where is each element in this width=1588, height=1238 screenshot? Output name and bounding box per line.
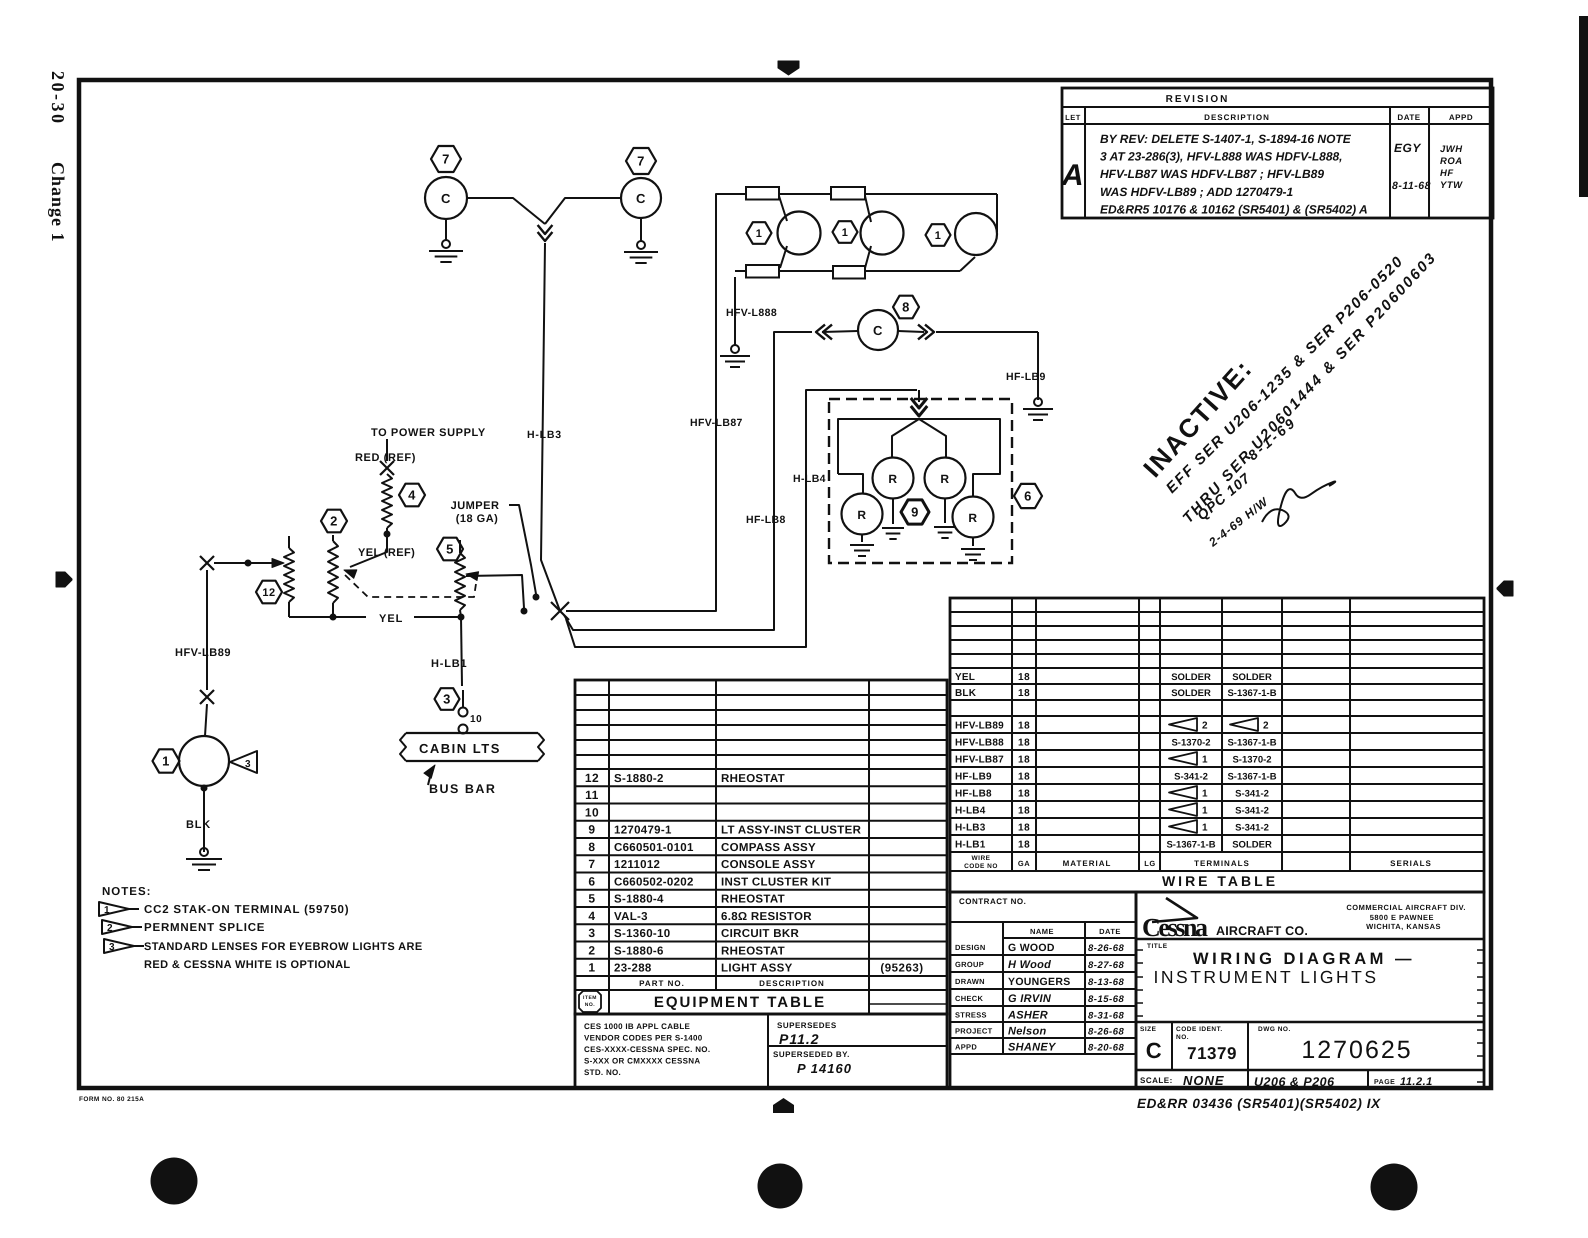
svg-text:G IRVIN: G IRVIN <box>1008 993 1052 1005</box>
svg-text:11.2.1: 11.2.1 <box>1400 1076 1433 1088</box>
svg-text:WIRING DIAGRAM —: WIRING DIAGRAM — <box>1193 950 1415 968</box>
svg-text:S-1367-1-B: S-1367-1-B <box>1166 840 1215 851</box>
svg-text:STD. NO.: STD. NO. <box>584 1068 621 1077</box>
svg-text:S-341-2: S-341-2 <box>1235 789 1269 800</box>
svg-text:RHEOSTAT: RHEOSTAT <box>721 945 785 957</box>
svg-text:C: C <box>441 191 451 206</box>
svg-text:TERMINALS: TERMINALS <box>1194 859 1250 868</box>
svg-text:NO.: NO. <box>1176 1034 1189 1041</box>
svg-text:1: 1 <box>1202 755 1208 766</box>
svg-text:PAGE: PAGE <box>1374 1079 1395 1086</box>
svg-text:JWH: JWH <box>1440 144 1463 155</box>
svg-text:C660501-0101: C660501-0101 <box>614 842 694 854</box>
svg-text:3 AT 23-286(3), HFV-L888 WAS H: 3 AT 23-286(3), HFV-L888 WAS HDFV-L888, <box>1100 150 1343 164</box>
svg-text:1: 1 <box>842 227 849 239</box>
svg-text:1270479-1: 1270479-1 <box>614 825 672 837</box>
svg-text:S-1367-1-B: S-1367-1-B <box>1227 772 1276 783</box>
svg-text:CHECK: CHECK <box>955 994 983 1003</box>
svg-text:18: 18 <box>1018 721 1030 732</box>
svg-text:C: C <box>1146 1038 1162 1063</box>
svg-text:G WOOD: G WOOD <box>1008 942 1055 954</box>
svg-text:YEL (REF): YEL (REF) <box>358 547 415 559</box>
svg-text:HF-LB9: HF-LB9 <box>955 772 992 783</box>
svg-text:Nelson: Nelson <box>1008 1026 1046 1038</box>
svg-text:8-26-68: 8-26-68 <box>1088 1027 1124 1038</box>
svg-text:PART NO.: PART NO. <box>639 979 685 988</box>
svg-text:20-30: 20-30 <box>48 71 68 126</box>
svg-text:1: 1 <box>588 961 595 975</box>
svg-text:HFV-LB88: HFV-LB88 <box>955 738 1004 749</box>
svg-text:8: 8 <box>902 300 910 315</box>
svg-text:R: R <box>888 472 897 486</box>
svg-text:SOLDER: SOLDER <box>1171 672 1211 683</box>
svg-text:ROA: ROA <box>1440 156 1463 167</box>
svg-text:6.8Ω RESISTOR: 6.8Ω RESISTOR <box>721 911 812 923</box>
svg-text:RHEOSTAT: RHEOSTAT <box>721 894 785 906</box>
svg-text:S-1367-1-B: S-1367-1-B <box>1227 738 1276 749</box>
svg-text:DRAWN: DRAWN <box>955 977 985 986</box>
svg-text:H Wood: H Wood <box>1008 959 1051 971</box>
svg-text:1: 1 <box>162 754 170 769</box>
svg-text:VENDOR CODES PER S-1400: VENDOR CODES PER S-1400 <box>584 1034 703 1043</box>
svg-text:12: 12 <box>262 587 275 599</box>
svg-text:DWG NO.: DWG NO. <box>1258 1026 1291 1033</box>
svg-text:MATERIAL: MATERIAL <box>1063 859 1112 868</box>
svg-text:8-31-68: 8-31-68 <box>1088 1011 1124 1022</box>
svg-text:NO.: NO. <box>585 1002 596 1008</box>
svg-text:EQUIPMENT TABLE: EQUIPMENT TABLE <box>654 994 826 1011</box>
svg-text:9: 9 <box>588 823 595 837</box>
svg-text:1: 1 <box>1202 823 1208 834</box>
svg-text:S-XXX OR CMXXXX CESSNA: S-XXX OR CMXXXX CESSNA <box>584 1057 700 1066</box>
svg-text:S-341-2: S-341-2 <box>1174 772 1208 783</box>
svg-text:ED&RR5 10176 & 10162 (SR5401): ED&RR5 10176 & 10162 (SR5401) & (SR5402)… <box>1100 202 1368 216</box>
svg-text:10: 10 <box>585 805 599 819</box>
svg-text:SERIALS: SERIALS <box>1390 859 1432 868</box>
svg-text:YTW: YTW <box>1440 180 1463 191</box>
svg-text:23-288: 23-288 <box>614 963 652 975</box>
svg-text:7: 7 <box>588 857 595 871</box>
svg-text:HFV-LB89: HFV-LB89 <box>175 647 231 659</box>
svg-text:18: 18 <box>1018 755 1030 766</box>
svg-text:COMMERCIAL AIRCRAFT DIV.: COMMERCIAL AIRCRAFT DIV. <box>1346 903 1466 912</box>
svg-text:ITEM: ITEM <box>583 995 597 1001</box>
svg-text:H-LB1: H-LB1 <box>955 840 986 851</box>
svg-text:FORM NO. 80 215A: FORM NO. 80 215A <box>79 1096 144 1103</box>
svg-text:5800 E PAWNEE: 5800 E PAWNEE <box>1370 913 1434 922</box>
svg-text:STRESS: STRESS <box>955 1011 987 1020</box>
svg-text:DESIGN: DESIGN <box>955 943 986 952</box>
svg-text:LT ASSY-INST CLUSTER: LT ASSY-INST CLUSTER <box>721 825 862 837</box>
svg-text:18: 18 <box>1018 840 1030 851</box>
svg-text:DESCRIPTION: DESCRIPTION <box>759 979 825 988</box>
svg-text:3: 3 <box>109 942 115 953</box>
svg-text:1: 1 <box>935 230 942 242</box>
svg-text:7: 7 <box>637 154 645 169</box>
svg-text:WIRE: WIRE <box>972 855 991 862</box>
svg-text:C660502-0202: C660502-0202 <box>614 876 694 888</box>
svg-text:CONSOLE ASSY: CONSOLE ASSY <box>721 859 816 871</box>
svg-text:18: 18 <box>1018 688 1030 699</box>
svg-text:5: 5 <box>446 542 454 557</box>
svg-text:NAME: NAME <box>1030 927 1054 936</box>
svg-text:3: 3 <box>443 692 451 707</box>
svg-text:SOLDER: SOLDER <box>1232 672 1272 683</box>
svg-text:8-27-68: 8-27-68 <box>1088 960 1124 971</box>
svg-text:STANDARD LENSES FOR EYEBROW LI: STANDARD LENSES FOR EYEBROW LIGHTS ARE <box>144 941 423 953</box>
svg-text:BY REV: DELETE S-1407-1, S-189: BY REV: DELETE S-1407-1, S-1894-16 NOTE <box>1100 132 1352 146</box>
svg-text:YEL: YEL <box>955 672 975 683</box>
svg-text:18: 18 <box>1018 672 1030 683</box>
svg-text:S-1880-6: S-1880-6 <box>614 945 664 957</box>
svg-text:7: 7 <box>442 152 450 167</box>
svg-text:2: 2 <box>1263 721 1269 732</box>
svg-text:S-1367-1-B: S-1367-1-B <box>1227 688 1276 699</box>
svg-text:S-1880-2: S-1880-2 <box>614 773 664 785</box>
svg-text:S-1370-2: S-1370-2 <box>1232 755 1271 766</box>
svg-text:COMPASS ASSY: COMPASS ASSY <box>721 842 816 854</box>
svg-text:AIRCRAFT CO.: AIRCRAFT CO. <box>1216 924 1308 938</box>
svg-text:1: 1 <box>1202 789 1208 800</box>
svg-text:10: 10 <box>470 714 482 725</box>
svg-text:8-15-68: 8-15-68 <box>1088 994 1124 1005</box>
svg-text:9: 9 <box>911 505 919 520</box>
svg-text:CC2 STAK-ON TERMINAL (59750): CC2 STAK-ON TERMINAL (59750) <box>144 904 349 916</box>
svg-text:HFV-LB87: HFV-LB87 <box>690 417 743 429</box>
svg-text:TO POWER SUPPLY: TO POWER SUPPLY <box>371 427 486 439</box>
svg-text:HF-LB9: HF-LB9 <box>1006 371 1046 383</box>
svg-text:18: 18 <box>1018 823 1030 834</box>
svg-text:8-13-68: 8-13-68 <box>1088 977 1124 988</box>
svg-text:HF-LB8: HF-LB8 <box>746 514 786 526</box>
svg-text:NOTES:: NOTES: <box>102 886 151 898</box>
svg-text:8-26-68: 8-26-68 <box>1088 943 1124 954</box>
svg-text:71379: 71379 <box>1187 1044 1237 1063</box>
svg-text:(18 GA): (18 GA) <box>456 513 499 525</box>
svg-text:BUS BAR: BUS BAR <box>429 782 496 796</box>
svg-text:2: 2 <box>588 943 595 957</box>
svg-text:4: 4 <box>408 488 416 503</box>
svg-text:1: 1 <box>756 228 763 240</box>
svg-text:CES 1000 IB APPL CABLE: CES 1000 IB APPL CABLE <box>584 1022 691 1031</box>
svg-text:A: A <box>1061 159 1084 192</box>
svg-text:RED & CESSNA WHITE IS OPTIONAL: RED & CESSNA WHITE IS OPTIONAL <box>144 959 351 971</box>
svg-text:DATE: DATE <box>1397 113 1420 122</box>
svg-text:SCALE:: SCALE: <box>1140 1076 1173 1085</box>
svg-text:EGY: EGY <box>1394 141 1421 155</box>
svg-text:HF-LB8: HF-LB8 <box>955 789 992 800</box>
svg-text:18: 18 <box>1018 789 1030 800</box>
svg-text:5: 5 <box>588 892 595 906</box>
svg-text:SUPERSEDES: SUPERSEDES <box>777 1021 837 1030</box>
svg-text:HFV-LB89: HFV-LB89 <box>955 721 1004 732</box>
svg-text:H-LB1: H-LB1 <box>431 658 467 670</box>
svg-text:CIRCUIT BKR: CIRCUIT BKR <box>721 928 799 940</box>
svg-text:CABIN LTS: CABIN LTS <box>419 741 501 756</box>
svg-text:BLK: BLK <box>955 688 977 699</box>
svg-text:2: 2 <box>330 514 338 529</box>
svg-text:H-LB4: H-LB4 <box>793 473 826 485</box>
svg-text:2: 2 <box>1202 721 1208 732</box>
svg-text:APPD: APPD <box>1449 113 1473 122</box>
svg-text:1270625: 1270625 <box>1301 1036 1412 1064</box>
svg-text:LIGHT ASSY: LIGHT ASSY <box>721 963 793 975</box>
svg-text:4: 4 <box>588 909 595 923</box>
svg-text:WAS HDFV-LB89 ; ADD 1270479-1: WAS HDFV-LB89 ; ADD 1270479-1 <box>1100 185 1293 199</box>
svg-text:(95263): (95263) <box>880 963 923 975</box>
svg-text:SOLDER: SOLDER <box>1232 840 1272 851</box>
svg-text:HF: HF <box>1440 168 1454 179</box>
svg-text:INST CLUSTER KIT: INST CLUSTER KIT <box>721 876 831 888</box>
svg-text:GROUP: GROUP <box>955 960 984 969</box>
svg-text:HFV-LB87 WAS HDFV-LB87 ; HFV: HFV-LB87 WAS HDFV-LB87 ; HFV-LB89 <box>1100 167 1324 181</box>
svg-text:18: 18 <box>1018 738 1030 749</box>
svg-text:R: R <box>940 472 949 486</box>
svg-text:S-1360-10: S-1360-10 <box>614 928 670 940</box>
svg-text:8: 8 <box>588 840 595 854</box>
svg-text:S-341-2: S-341-2 <box>1235 823 1269 834</box>
svg-text:PROJECT: PROJECT <box>955 1027 993 1036</box>
svg-text:BLK: BLK <box>186 819 211 831</box>
svg-text:2: 2 <box>107 923 113 934</box>
svg-text:S-1370-2: S-1370-2 <box>1171 738 1210 749</box>
svg-text:18: 18 <box>1018 772 1030 783</box>
svg-text:YEL: YEL <box>379 613 403 625</box>
svg-text:TITLE: TITLE <box>1147 943 1168 950</box>
svg-text:HFV-L888: HFV-L888 <box>726 307 777 319</box>
svg-text:R: R <box>968 511 977 525</box>
svg-text:H-LB3: H-LB3 <box>955 823 986 834</box>
svg-text:SUPERSEDED BY.: SUPERSEDED BY. <box>773 1050 850 1059</box>
svg-text:SIZE: SIZE <box>1140 1026 1157 1033</box>
svg-text:P11.2: P11.2 <box>779 1031 820 1047</box>
svg-text:GA: GA <box>1018 859 1030 868</box>
svg-text:S-341-2: S-341-2 <box>1235 806 1269 817</box>
svg-text:11: 11 <box>585 788 599 802</box>
svg-text:12: 12 <box>585 771 599 785</box>
svg-text:NONE: NONE <box>1183 1073 1225 1088</box>
svg-text:C: C <box>873 323 883 338</box>
svg-text:R: R <box>857 508 866 522</box>
svg-text:DATE: DATE <box>1099 927 1121 936</box>
svg-text:VAL-3: VAL-3 <box>614 911 648 923</box>
svg-text:3: 3 <box>588 926 595 940</box>
svg-text:C: C <box>636 191 646 206</box>
svg-text:PERMNENT SPLICE: PERMNENT SPLICE <box>144 922 265 934</box>
svg-text:RED (REF): RED (REF) <box>355 452 416 464</box>
svg-text:REVISION: REVISION <box>1166 94 1230 105</box>
svg-text:CONTRACT NO.: CONTRACT NO. <box>959 897 1026 906</box>
svg-text:ED&RR 03436 (SR5401)(SR5402) I: ED&RR 03436 (SR5401)(SR5402) IX <box>1137 1096 1381 1111</box>
svg-text:1211012: 1211012 <box>614 859 660 871</box>
svg-text:HFV-LB87: HFV-LB87 <box>955 755 1004 766</box>
svg-text:1: 1 <box>1202 806 1208 817</box>
svg-text:WICHITA, KANSAS: WICHITA, KANSAS <box>1366 922 1441 931</box>
svg-text:8-11-68: 8-11-68 <box>1392 180 1431 192</box>
svg-text:3: 3 <box>245 759 251 770</box>
svg-text:RHEOSTAT: RHEOSTAT <box>721 773 785 785</box>
svg-text:Change 1: Change 1 <box>48 162 68 243</box>
svg-text:LET: LET <box>1065 113 1081 122</box>
svg-text:DESCRIPTION: DESCRIPTION <box>1204 113 1270 122</box>
svg-text:CES-XXXX-CESSNA SPEC. NO.: CES-XXXX-CESSNA SPEC. NO. <box>584 1045 710 1054</box>
svg-text:U206 & P206: U206 & P206 <box>1254 1075 1335 1089</box>
svg-text:P 14160: P 14160 <box>797 1061 852 1076</box>
svg-text:18: 18 <box>1018 806 1030 817</box>
svg-text:8-20-68: 8-20-68 <box>1088 1043 1124 1054</box>
svg-text:WIRE TABLE: WIRE TABLE <box>1162 873 1278 889</box>
svg-text:YOUNGERS: YOUNGERS <box>1008 976 1071 988</box>
svg-text:1: 1 <box>104 905 110 916</box>
svg-text:6: 6 <box>1024 489 1032 504</box>
svg-text:LG: LG <box>1144 859 1155 868</box>
svg-text:CODE NO: CODE NO <box>964 863 998 870</box>
svg-text:INSTRUMENT LIGHTS: INSTRUMENT LIGHTS <box>1154 967 1379 987</box>
svg-text:6: 6 <box>588 874 595 888</box>
svg-text:CODE IDENT.: CODE IDENT. <box>1176 1026 1223 1033</box>
svg-text:H-LB3: H-LB3 <box>527 429 562 441</box>
svg-text:SOLDER: SOLDER <box>1171 688 1211 699</box>
svg-text:S-1880-4: S-1880-4 <box>614 894 664 906</box>
svg-text:H-LB4: H-LB4 <box>955 806 986 817</box>
svg-text:SHANEY: SHANEY <box>1008 1042 1057 1054</box>
svg-text:ASHER: ASHER <box>1007 1010 1048 1022</box>
svg-text:APPD: APPD <box>955 1043 977 1052</box>
svg-text:JUMPER: JUMPER <box>451 500 500 512</box>
